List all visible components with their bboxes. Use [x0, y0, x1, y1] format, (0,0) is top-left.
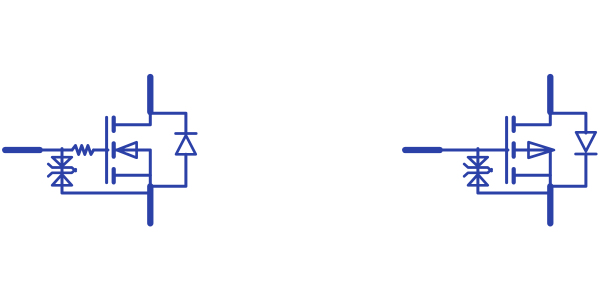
channel segment drain Q1 [112, 118, 116, 131]
channel segment drain Q2 [512, 118, 516, 131]
zener diode D1b (lower ESD zener, anode down) [52, 174, 72, 185]
wire body diode to source node [550, 154, 586, 186]
transistor Q1 (N-channel MOSFET, left symbol) [5, 77, 196, 223]
zener bar D1a cathode [48, 164, 75, 171]
zener bar D3b cathode [464, 169, 491, 176]
zener bar D3a cathode [464, 164, 491, 171]
body arrow Q2 (points away from channel, P-channel) [529, 142, 554, 158]
wire gate node to ESD zener and source return [62, 149, 150, 193]
wire body diode to source node [150, 154, 186, 186]
wire gate node to ESD zener and source return [478, 149, 550, 193]
drain lead pin D2 [547, 77, 553, 112]
channel segment source Q2 [512, 169, 516, 182]
resistor R1 (gate series resistor) [72, 146, 94, 155]
wire drain node to body diode [550, 113, 586, 133]
body diode D4 (anode at drain, cathode at source) [576, 132, 596, 151]
zener bar D1b cathode [48, 169, 75, 176]
body diode D2 (anode at source, cathode at drain) [176, 135, 196, 154]
wire drain node to body diode [150, 113, 186, 134]
wire drain stub Q2 [514, 113, 551, 125]
body arrow Q1 (points toward channel, N-channel) [117, 142, 137, 157]
zener diode D1a (upper ESD zener, anode up) [52, 157, 72, 166]
wire drain stub Q1 [114, 113, 151, 125]
wire resistor to gate [94, 149, 108, 152]
transistor Q2 (P-channel MOSFET, right symbol) [405, 77, 596, 223]
wire source stub Q1 [114, 174, 151, 177]
drain lead pin D1 [147, 77, 153, 112]
gate line Q2 [505, 117, 508, 182]
wire gate lead to resistor [38, 149, 72, 152]
gate lead pin G2 [405, 147, 440, 153]
zener diode D3a (upper ESD zener, anode up) [468, 157, 488, 166]
body diode D2 cathode bar [176, 132, 197, 135]
channel segment body Q2 [512, 143, 516, 156]
body diode D4 cathode bar [576, 153, 597, 156]
channel segment body Q1 [112, 143, 116, 156]
source lead pin S2 [547, 186, 553, 223]
wire body connection to source [114, 150, 151, 188]
gate lead pin G1 [5, 147, 40, 153]
wire source stub Q2 [514, 174, 551, 177]
channel segment source Q1 [112, 169, 116, 182]
zener diode D3b (lower ESD zener, anode down) [468, 174, 488, 185]
wire body connection to source [514, 150, 551, 188]
gate line Q1 [105, 117, 108, 182]
source lead pin S1 [147, 186, 153, 223]
wire gate lead to gate [438, 149, 508, 152]
